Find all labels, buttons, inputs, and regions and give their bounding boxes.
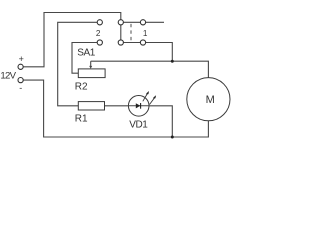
svg-text:R2: R2 [75, 81, 88, 92]
svg-text:VD1: VD1 [129, 119, 148, 130]
svg-text:12V: 12V [0, 70, 16, 81]
svg-text:R1: R1 [75, 113, 88, 124]
svg-text:M: M [206, 94, 215, 106]
svg-text:1: 1 [143, 29, 148, 38]
svg-text:+: + [19, 54, 24, 64]
svg-text:SA1: SA1 [77, 48, 96, 59]
svg-text:-: - [19, 83, 22, 93]
svg-text:2: 2 [96, 29, 101, 38]
